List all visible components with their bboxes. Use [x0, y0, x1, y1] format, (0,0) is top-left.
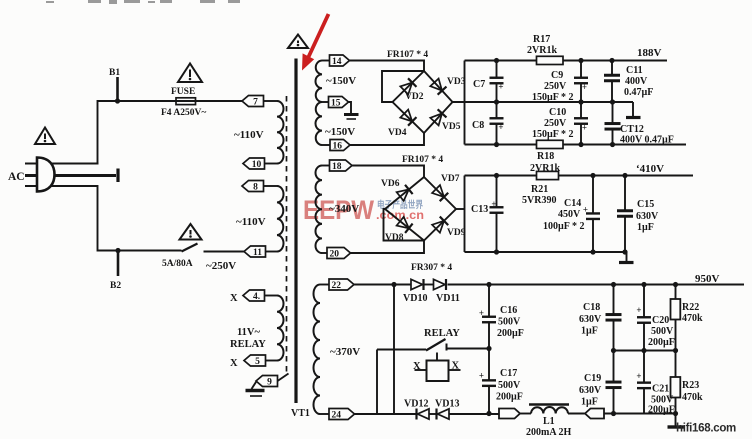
resistor R22: [673, 282, 678, 287]
svg-text:500V: 500V: [498, 317, 521, 328]
wire 188V bottom rail: [465, 144, 687, 146]
switch 5A/80A blade: [182, 244, 198, 252]
primary winding lower ~110V: [277, 186, 284, 252]
warning triangle above fuse: [178, 64, 202, 83]
watermark EEPW logo: [303, 195, 424, 225]
inductor L1 winding: [531, 407, 568, 413]
svg-text:~110V: ~110V: [234, 129, 264, 141]
terminal 18: [330, 160, 353, 171]
capacitor C21: [641, 348, 646, 353]
wire VD12 to VD13: [430, 413, 437, 415]
svg-text:~250V: ~250V: [206, 260, 236, 272]
relay coil right lead: [449, 369, 461, 371]
capacitor C13: [496, 176, 498, 208]
terminal 14: [330, 55, 350, 66]
wire terminal 18 to winding: [322, 165, 330, 167]
wire VD13 to C17 bottom: [450, 413, 500, 415]
diode VD10: [411, 279, 423, 289]
capacitor C14: [592, 176, 594, 214]
svg-text:200µF: 200µF: [648, 404, 675, 415]
relay coil box: [427, 361, 449, 382]
secondary winding ~150V lower: [316, 102, 323, 145]
relay winding 11V~: [277, 296, 284, 361]
relay left vertical wire: [376, 350, 378, 415]
svg-text:500V: 500V: [498, 380, 521, 391]
svg-text:C10: C10: [549, 107, 566, 118]
svg-text:+: +: [498, 122, 503, 132]
terminal 5: [244, 355, 266, 366]
svg-text:C18: C18: [583, 302, 600, 313]
chassis ground stub on 188V middle rail: [632, 102, 634, 116]
relay switch right contact: [446, 344, 448, 351]
wire winding to terminal 11: [266, 251, 278, 253]
svg-text:C20: C20: [652, 315, 669, 326]
svg-text:22: 22: [332, 281, 342, 291]
wire terminal 15 to winding: [322, 101, 329, 103]
warning triangle near plug: [35, 128, 55, 145]
wire winding to terminal 10: [265, 163, 278, 165]
wire flag to L1: [520, 413, 531, 415]
svg-text:+: +: [479, 371, 484, 381]
svg-text:20: 20: [330, 250, 340, 260]
svg-text:+: +: [636, 371, 641, 381]
svg-text:+: +: [582, 123, 587, 133]
wire terminal 22 rail to VD10: [354, 284, 411, 286]
svg-text:VD12: VD12: [404, 399, 428, 410]
svg-text:+: +: [582, 82, 587, 92]
diode VD11: [434, 279, 446, 289]
svg-text:C8: C8: [472, 120, 484, 131]
svg-text:470k: 470k: [682, 392, 703, 403]
capacitor C7: [496, 61, 498, 78]
node B2: [115, 248, 120, 253]
diode VD4: [400, 110, 412, 122]
wire terminal 9 to core: [278, 374, 289, 382]
svg-text:C17: C17: [500, 368, 517, 379]
svg-text:C13: C13: [471, 204, 488, 215]
wire terminal 5 to winding: [266, 360, 278, 362]
svg-text:CT12: CT12: [620, 124, 644, 135]
svg-text:FUSE: FUSE: [171, 87, 195, 97]
svg-text:VD13: VD13: [435, 399, 459, 410]
svg-text:24: 24: [332, 411, 342, 421]
svg-text:16: 16: [333, 142, 343, 152]
svg-text:FR107 * 4: FR107 * 4: [402, 155, 443, 165]
svg-text:200µF: 200µF: [496, 392, 523, 403]
svg-text:R18: R18: [537, 151, 554, 162]
inductor L1 core bar: [529, 403, 569, 406]
svg-text:1µF: 1µF: [637, 222, 654, 233]
AC mains prong top wire: [25, 163, 99, 165]
svg-text:X: X: [230, 358, 238, 369]
capacitor C11: [611, 61, 613, 75]
svg-text:7: 7: [253, 98, 258, 108]
svg-text:VD5: VD5: [442, 122, 461, 132]
capacitor C20: [641, 282, 646, 287]
svg-text:VD11: VD11: [436, 293, 460, 304]
capacitor C18: [611, 282, 616, 287]
svg-text:450V: 450V: [558, 209, 581, 220]
svg-text:F4 A250V~: F4 A250V~: [161, 108, 206, 118]
svg-text:11: 11: [253, 248, 262, 258]
svg-text:AC: AC: [8, 171, 25, 183]
resistor R23: [675, 351, 677, 378]
terminal 15: [329, 97, 349, 108]
wire plug bottom down to switch rail: [88, 186, 182, 251]
wire switch to terminal 11: [204, 251, 245, 253]
capacitor C16: [486, 282, 491, 287]
diode VD3: [430, 79, 442, 91]
svg-text:4.: 4.: [253, 292, 260, 302]
svg-text:X: X: [230, 293, 238, 304]
svg-text:C7: C7: [473, 79, 485, 90]
AC plug body: [37, 158, 55, 192]
bridge2 output stub to vertical bus: [456, 208, 465, 210]
svg-text:~150V: ~150V: [325, 126, 355, 138]
bridge2 hook left corner to bottom corner: [384, 209, 425, 241]
svg-text:400V: 400V: [625, 76, 648, 87]
svg-text:B2: B2: [110, 281, 121, 291]
chassis ground at terminal 9: [252, 382, 257, 389]
svg-text:~340V: ~340V: [329, 203, 359, 215]
resistor R17: [537, 56, 564, 64]
wire VD10 to VD11: [425, 284, 434, 286]
wire terminal 20 to winding: [322, 252, 327, 254]
diode VD9: [432, 221, 444, 233]
svg-text:10: 10: [252, 160, 262, 170]
relay switch blade: [426, 339, 446, 351]
wire terminal 20 rail to bridge2 bottom: [351, 241, 425, 254]
svg-text:150µF * 2: 150µF * 2: [532, 92, 574, 103]
resistor R18: [537, 140, 564, 148]
diode VD7: [432, 185, 444, 197]
chassis ground stub on 410V bottom rail: [626, 252, 628, 261]
ground at 950V bottom rail: [673, 411, 678, 416]
svg-text:~150V: ~150V: [326, 75, 356, 87]
svg-text:14: 14: [332, 57, 342, 67]
svg-text:1µF: 1µF: [581, 397, 598, 408]
wire terminal 16 rail to bridge1 bottom: [350, 133, 424, 145]
red annotation arrow: [302, 14, 329, 71]
diode VD6: [397, 189, 409, 201]
connector flag right of L1: [585, 409, 604, 419]
fuse F4: [176, 98, 196, 105]
diode VD12: [418, 409, 430, 419]
relay coil left lead: [415, 369, 427, 371]
wire 950V bottom rail: [604, 413, 676, 415]
bridge2 output vertical bus: [464, 176, 466, 253]
capacitor C19: [611, 348, 616, 353]
capacitor C10: [580, 102, 582, 118]
terminal 10: [243, 158, 265, 169]
svg-text:C14: C14: [564, 198, 581, 209]
svg-text:C9: C9: [551, 70, 563, 81]
svg-text:+: +: [479, 308, 484, 318]
wire terminal 24 rail: [355, 413, 417, 415]
svg-text:VD3: VD3: [447, 77, 466, 87]
svg-text:L1: L1: [543, 416, 555, 427]
transformer core dashed line: [286, 96, 288, 374]
svg-text:8: 8: [253, 183, 258, 193]
relay actuator link: [436, 353, 438, 361]
svg-text:FR107 * 4: FR107 * 4: [387, 50, 428, 60]
svg-text:+: +: [636, 305, 641, 315]
terminal 8: [242, 181, 264, 192]
svg-text:‘410V: ‘410V: [636, 163, 664, 175]
svg-text:950V: 950V: [695, 273, 720, 285]
diode VD5: [430, 113, 442, 125]
capacitor C15: [624, 176, 626, 211]
svg-text:hifi168.com: hifi168.com: [676, 423, 736, 435]
wire terminal 24 to winding: [320, 413, 329, 415]
bridge1 output vertical bus: [464, 61, 466, 145]
node B1: [115, 98, 120, 103]
secondary winding ~150V upper: [316, 61, 322, 103]
warning triangle above switch: [180, 224, 202, 240]
junction vertical left bus: [391, 282, 396, 287]
wire terminal 4 to relay winding: [265, 295, 278, 297]
svg-text:250V: 250V: [544, 118, 567, 129]
svg-text:C21: C21: [652, 384, 669, 395]
AC mains prong bottom wire: [25, 185, 88, 187]
svg-text:200mA 2H: 200mA 2H: [526, 427, 572, 438]
svg-text:630V: 630V: [579, 385, 602, 396]
bridge1 hook top to left corner: [382, 71, 424, 102]
svg-text:VD7: VD7: [441, 174, 460, 184]
terminal 22: [329, 279, 354, 290]
wire 188V middle rail: [453, 101, 634, 103]
svg-text:~370V: ~370V: [330, 346, 360, 358]
svg-text:200µF: 200µF: [648, 337, 675, 348]
wire 410V bottom rail: [465, 251, 627, 253]
svg-text:150µF * 2: 150µF * 2: [532, 129, 574, 140]
svg-text:VD2: VD2: [405, 92, 424, 102]
primary winding upper ~110V: [277, 101, 284, 164]
svg-text:R23: R23: [682, 380, 699, 391]
capacitor C8: [496, 102, 498, 118]
wire plug top to B1 rail: [98, 101, 244, 164]
wire terminal 8 to winding: [264, 185, 278, 187]
bridge2 diamond edges: [385, 177, 456, 241]
svg-text:C15: C15: [637, 199, 654, 210]
svg-text:R22: R22: [682, 302, 699, 313]
svg-text:5A/80A: 5A/80A: [162, 259, 193, 269]
svg-text:400V 0.47µF: 400V 0.47µF: [620, 135, 674, 146]
wire 950V middle rail: [614, 350, 676, 352]
svg-text:18: 18: [332, 162, 342, 172]
wire terminal 14 rail to bridge1 top: [350, 61, 425, 72]
capacitor C17: [486, 346, 491, 351]
T-bar terminal of middle wire: [116, 169, 119, 183]
wire terminal 16 to winding: [322, 144, 330, 146]
svg-text:2VR1k: 2VR1k: [527, 45, 557, 56]
svg-text:VD4: VD4: [388, 128, 407, 138]
diode VD8: [397, 217, 409, 228]
svg-text:15: 15: [331, 99, 341, 109]
capacitor CT12: [612, 102, 614, 123]
svg-text:9: 9: [267, 378, 272, 388]
svg-text:R21: R21: [531, 184, 548, 195]
svg-text:630V: 630V: [636, 211, 659, 222]
connector flag left of L1: [499, 409, 520, 419]
terminal 20: [327, 248, 351, 259]
svg-text:5: 5: [255, 357, 260, 367]
wire terminal 22 to winding: [320, 284, 329, 286]
svg-text:FR307 * 4: FR307 * 4: [411, 263, 452, 273]
junction dots 410V rails: [494, 173, 499, 178]
diode VD2: [400, 83, 412, 95]
terminal 4: [243, 290, 265, 301]
svg-text:1µF: 1µF: [581, 326, 598, 337]
terminal 9: [256, 376, 278, 387]
svg-text:VD9: VD9: [447, 228, 466, 238]
svg-text:250V: 250V: [544, 81, 567, 92]
svg-text:0.47µF: 0.47µF: [624, 87, 653, 98]
warning triangle above core: [288, 35, 308, 49]
transformer core solid line: [294, 59, 297, 404]
AC mains prong middle wire to T-bar: [25, 174, 116, 177]
svg-text:~110V: ~110V: [236, 216, 266, 228]
wire VD11 to 950V rail: [448, 284, 490, 286]
secondary winding ~370V: [314, 285, 321, 415]
svg-text:C16: C16: [500, 305, 517, 316]
svg-text:11V~: 11V~: [237, 327, 261, 338]
svg-text:VD10: VD10: [403, 293, 427, 304]
svg-text:5VR390: 5VR390: [522, 195, 556, 206]
ground at terminal 15: [349, 102, 352, 113]
svg-text:+: +: [583, 205, 588, 215]
wire terminal 14 to winding: [322, 60, 330, 62]
svg-text:500V: 500V: [651, 326, 674, 337]
svg-text:188V: 188V: [637, 47, 662, 59]
svg-text:+: +: [491, 199, 496, 209]
svg-text:100µF * 2: 100µF * 2: [543, 221, 585, 232]
faint cropped text top edge: [46, 0, 240, 4]
svg-text:RELAY: RELAY: [424, 328, 460, 339]
terminal 7: [242, 96, 264, 107]
resistor R21: [537, 171, 559, 179]
wire terminal 18 rail to bridge2 top: [352, 166, 424, 178]
wire terminal 7 to primary winding: [264, 100, 278, 102]
svg-text:RELAY: RELAY: [230, 339, 266, 350]
svg-text:C11: C11: [626, 65, 643, 76]
terminal 24: [329, 409, 355, 420]
terminal 16: [330, 140, 350, 151]
wire relay switch to C16/C17 midpoint: [447, 348, 490, 350]
bridge1 diamond edges: [393, 71, 453, 133]
diode VD13: [438, 409, 450, 419]
svg-text:R17: R17: [533, 34, 550, 45]
svg-text:C19: C19: [584, 373, 601, 384]
terminal 11: [244, 246, 266, 257]
svg-text:VT1: VT1: [291, 408, 310, 419]
svg-text:200µF: 200µF: [497, 328, 524, 339]
svg-text:470k: 470k: [682, 313, 703, 324]
svg-text:X: X: [452, 361, 460, 372]
svg-text:VD6: VD6: [381, 179, 400, 189]
svg-text:X: X: [413, 361, 421, 372]
svg-text:B1: B1: [109, 68, 120, 78]
secondary winding ~340V: [315, 166, 322, 254]
junction dots 188V rails: [494, 58, 499, 63]
wire L1 to right flag: [568, 413, 585, 415]
wire 950V top rail: [489, 284, 744, 286]
svg-text:+: +: [498, 82, 503, 92]
svg-text:630V: 630V: [579, 314, 602, 325]
wire 410V top rail: [465, 175, 694, 177]
svg-text:VD8: VD8: [385, 233, 404, 243]
relay switch wire from winding: [377, 349, 426, 351]
wire 188V top rail: [465, 60, 668, 62]
capacitor C9: [580, 61, 582, 78]
